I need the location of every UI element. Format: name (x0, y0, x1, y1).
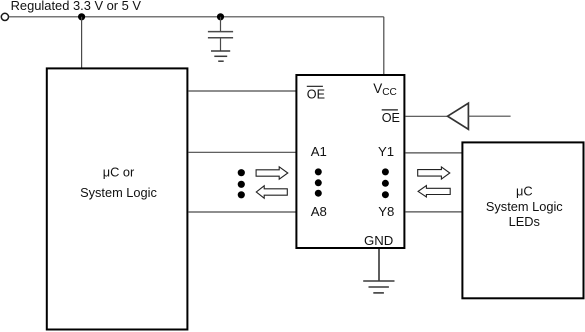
svg-text:GND: GND (364, 233, 393, 248)
ground (IC) (363, 281, 394, 293)
ground (capacitor) (211, 51, 230, 61)
junction: left box supply tap (78, 13, 85, 20)
wire: Y1 to right box (405, 152, 462, 154)
svg-text:LEDs: LEDs (509, 214, 540, 229)
svg-text:μC: μC (516, 184, 533, 199)
wire: supply rail (9, 16, 384, 18)
block arrow right (A side) (256, 167, 288, 179)
block arrow left (A side) (256, 186, 287, 198)
wire: OE pin (right) to buffer (405, 115, 447, 117)
bus ellipsis dots (left of IC) (238, 169, 245, 198)
wire: capacitor to ground (220, 38, 222, 50)
svg-text:OE: OE (307, 88, 325, 102)
right box: uC / System Logic / LEDs (462, 142, 583, 298)
svg-text:A1: A1 (311, 144, 327, 159)
wire: GND pin to ground (378, 249, 380, 281)
left box: uC or System Logic (47, 68, 188, 329)
svg-text:Y8: Y8 (378, 204, 394, 219)
svg-text:System Logic: System Logic (486, 199, 563, 214)
svg-text:μC or: μC or (103, 165, 135, 180)
block arrow right (Y side) (418, 167, 450, 179)
svg-text:CC: CC (382, 87, 397, 98)
svg-text:V: V (373, 81, 382, 96)
supply terminal (open circle) (1, 13, 8, 20)
wire: A8 from left box to IC (188, 211, 296, 213)
svg-text:OE: OE (382, 111, 400, 125)
svg-text:System Logic: System Logic (80, 185, 157, 200)
svg-text:A8: A8 (311, 204, 327, 219)
wire: Y8 to right box (405, 211, 462, 213)
wire: OE from left box to IC (188, 90, 296, 92)
svg-text:Regulated 3.3 V or 5 V: Regulated 3.3 V or 5 V (11, 0, 142, 13)
ellipsis dots (A side, inside IC) (315, 168, 322, 196)
svg-text:Y1: Y1 (378, 144, 394, 159)
wire: supply rail to VCC pin (383, 17, 385, 75)
buffer/inverter driving OE (448, 103, 469, 129)
wire: tap to capacitor (220, 17, 222, 31)
capacitor C1 (208, 32, 233, 38)
IC U1 body (296, 75, 404, 248)
ellipsis dots (Y side, inside IC) (382, 168, 389, 198)
wire: buffer input stub (469, 115, 511, 117)
wire: supply to left box (81, 17, 83, 68)
wire: A1 from left box to IC (188, 151, 296, 153)
junction: capacitor tap (217, 13, 224, 20)
block arrow left (Y side) (418, 186, 450, 197)
